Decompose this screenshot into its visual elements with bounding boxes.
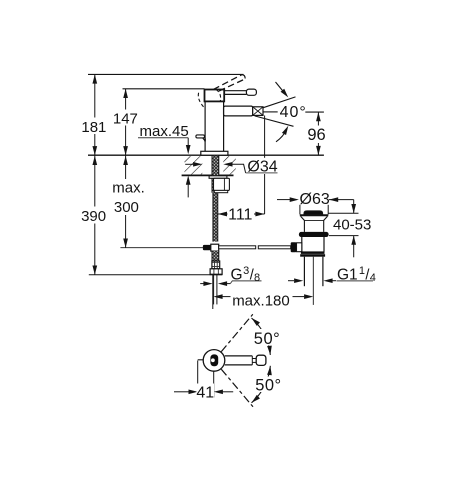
svg-text:max.180: max.180 (232, 292, 290, 309)
svg-text:390: 390 (81, 208, 106, 225)
svg-text:40-53: 40-53 (333, 216, 371, 233)
svg-text:96: 96 (307, 126, 325, 144)
svg-text:50°: 50° (255, 377, 281, 395)
svg-text:Ø63: Ø63 (300, 191, 330, 208)
svg-text:41: 41 (196, 384, 214, 401)
svg-text:40°: 40° (280, 104, 307, 121)
svg-text:max.45: max.45 (140, 123, 189, 140)
svg-text:147: 147 (113, 110, 138, 127)
svg-text:50°: 50° (254, 330, 280, 348)
svg-text:max.: max. (112, 180, 145, 197)
svg-text:111: 111 (228, 207, 252, 224)
svg-text:181: 181 (81, 119, 106, 136)
svg-text:300: 300 (114, 199, 139, 216)
